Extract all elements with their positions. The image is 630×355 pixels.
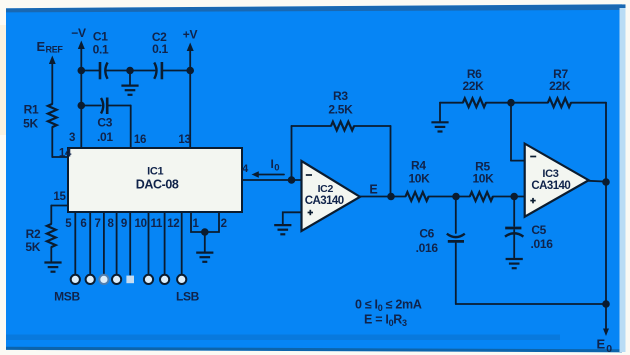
svg-text:0.1: 0.1	[152, 42, 168, 56]
svg-text:16: 16	[134, 134, 146, 146]
svg-text:7: 7	[95, 218, 101, 230]
svg-text:13: 13	[178, 134, 190, 146]
svg-text:0 ≤ I0 ≤ 2mA: 0 ≤ I0 ≤ 2mA	[355, 298, 422, 314]
svg-text:9: 9	[121, 218, 127, 230]
svg-text:8: 8	[108, 218, 115, 230]
svg-text:11: 11	[151, 218, 163, 230]
svg-text:CA3140: CA3140	[531, 180, 570, 192]
svg-text:22K: 22K	[462, 79, 484, 93]
svg-text:5: 5	[65, 218, 72, 230]
svg-text:12: 12	[167, 218, 179, 230]
svg-text:1: 1	[193, 218, 200, 230]
svg-text:22K: 22K	[549, 79, 571, 93]
svg-text:CA3140: CA3140	[305, 195, 344, 207]
svg-text:DAC-08: DAC-08	[136, 178, 179, 192]
svg-text:5K: 5K	[25, 240, 40, 254]
svg-text:3: 3	[69, 132, 75, 144]
svg-text:LSB: LSB	[176, 290, 200, 304]
svg-text:R2: R2	[26, 227, 41, 241]
svg-text:10: 10	[134, 218, 146, 230]
svg-text:C6: C6	[419, 227, 434, 241]
svg-text:.01: .01	[97, 130, 113, 144]
svg-text:I: I	[271, 157, 274, 171]
svg-text:10K: 10K	[472, 172, 494, 186]
svg-text:.016: .016	[531, 237, 554, 251]
svg-text:14: 14	[59, 148, 72, 160]
svg-text:C5: C5	[531, 223, 546, 237]
svg-text:E = I0R3: E = I0R3	[364, 313, 407, 329]
svg-text:R1: R1	[24, 103, 39, 117]
svg-text:IC1: IC1	[147, 166, 163, 178]
svg-text:2: 2	[221, 218, 227, 230]
svg-text:+V: +V	[183, 28, 198, 42]
svg-text:REF: REF	[46, 45, 64, 55]
svg-text:MSB: MSB	[54, 290, 80, 304]
svg-text:IC2: IC2	[318, 183, 334, 195]
svg-text:E: E	[597, 337, 606, 352]
svg-text:0.1: 0.1	[93, 43, 109, 57]
svg-text:15: 15	[53, 191, 66, 203]
svg-text:0: 0	[606, 343, 612, 355]
svg-text:2.5K: 2.5K	[328, 102, 353, 116]
svg-text:C3: C3	[97, 115, 112, 129]
svg-text:E: E	[369, 183, 377, 197]
svg-text:C1: C1	[93, 30, 108, 44]
svg-text:.016: .016	[416, 241, 439, 255]
svg-text:E: E	[37, 39, 46, 54]
svg-text:−V: −V	[71, 26, 86, 40]
svg-text:0: 0	[274, 163, 279, 174]
svg-text:IC3: IC3	[542, 168, 558, 180]
svg-text:R3: R3	[333, 89, 348, 103]
svg-text:5K: 5K	[23, 117, 38, 131]
svg-text:10K: 10K	[408, 172, 430, 186]
svg-text:6: 6	[80, 218, 86, 230]
